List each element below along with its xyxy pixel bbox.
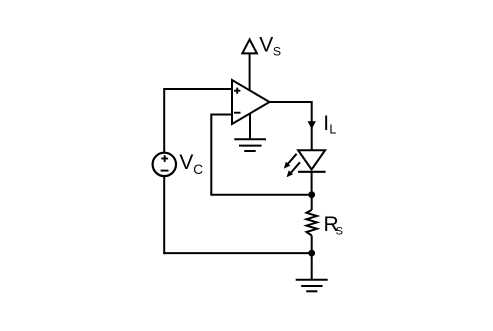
svg-text:I: I	[323, 112, 329, 135]
svg-text:S: S	[336, 226, 343, 238]
svg-text:V: V	[179, 151, 193, 174]
svg-text:C: C	[193, 162, 203, 177]
svg-text:S: S	[273, 44, 281, 58]
svg-text:L: L	[329, 122, 336, 136]
svg-text:V: V	[259, 33, 273, 56]
